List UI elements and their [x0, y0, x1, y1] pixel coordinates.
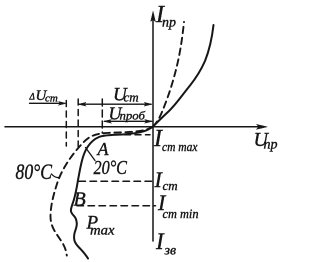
horizontal axis arrowhead — [257, 124, 268, 129]
dashed vertical extension line at x=66 (80C breakdown) — [65, 101, 67, 147]
leader line for 80 C label — [52, 174, 59, 178]
dashed level line I st — [79, 180, 153, 182]
svg-text:пр: пр — [264, 138, 278, 153]
svg-text:ст max: ст max — [162, 140, 198, 154]
svg-text:проб: проб — [120, 109, 147, 123]
dashed level line I st max — [114, 134, 150, 136]
svg-text:A: A — [97, 139, 110, 159]
svg-text:ст: ст — [45, 92, 58, 104]
delta U st dimension underline with right arrow — [30, 102, 64, 104]
vertical axis I — [152, 15, 154, 241]
svg-text:зв: зв — [164, 244, 177, 259]
vertical axis arrowhead — [151, 12, 156, 22]
dashed vertical extension line at x=102 (U prob) — [101, 99, 103, 133]
svg-text:80°C: 80°C — [16, 159, 53, 184]
forward branch dashed curve (80 C) — [153, 22, 184, 127]
U prob dimension double arrow — [105, 120, 152, 122]
svg-text:ст min: ст min — [163, 207, 199, 221]
svg-text:max: max — [90, 224, 115, 239]
leader line for 20 C label — [86, 148, 96, 161]
dashed level line I st min — [77, 205, 156, 207]
svg-text:20°C: 20°C — [94, 158, 128, 179]
svg-text:Δ: Δ — [29, 92, 35, 102]
forward branch solid curve (20 C) — [153, 25, 214, 127]
U st dimension double arrow — [79, 103, 151, 105]
svg-text:B: B — [74, 189, 86, 211]
svg-text:пр: пр — [162, 16, 176, 31]
svg-text:ст: ст — [124, 90, 139, 105]
svg-text:I: I — [155, 229, 165, 254]
horizontal axis U — [5, 126, 262, 128]
reverse branch dashed curve (80 C) — [51, 127, 153, 256]
dashed vertical extension line at x=78 (20C stabilization voltage) — [77, 99, 79, 150]
reverse branch solid curve (20 C) — [71, 127, 153, 259]
